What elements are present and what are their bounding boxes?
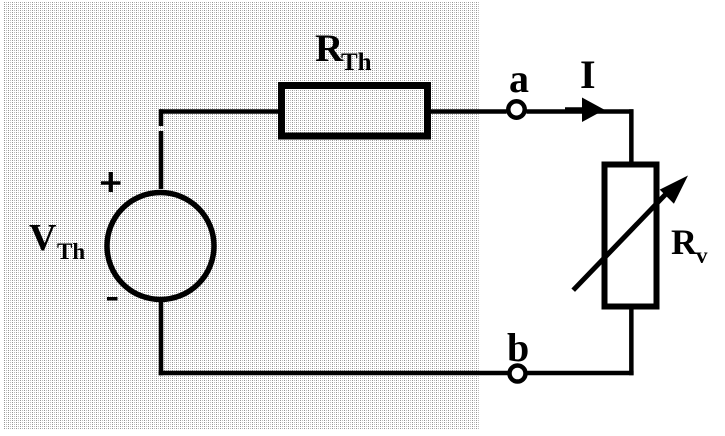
current arrow I tail	[565, 107, 583, 113]
svg-text:Th: Th	[57, 239, 85, 264]
svg-text:b: b	[507, 325, 529, 370]
wire top horizontal: R_Th to node a	[426, 109, 507, 114]
plus sign	[101, 172, 121, 192]
minus sign	[107, 297, 118, 301]
variable-resistor diagonal arrow line	[573, 191, 668, 290]
wire left vertical upper: gap to source top	[159, 131, 164, 189]
node b (open terminal)	[510, 366, 526, 382]
variable-resistor arrowhead	[660, 176, 688, 204]
voltage source V_Th (circle)	[107, 193, 214, 300]
wire bottom horizontal: corner to node b	[528, 371, 634, 376]
svg-text:a: a	[509, 56, 529, 101]
resistor R_Th (box, transparent interior)	[282, 86, 428, 137]
wire left vertical lower: source bottom to bottom wire	[159, 301, 164, 375]
svg-text:R: R	[315, 27, 344, 70]
stippled background region	[3, 2, 479, 430]
svg-text:I: I	[580, 52, 596, 97]
current arrow I	[582, 98, 605, 123]
wire right vertical: R_v bottom to bottom corner	[629, 307, 634, 375]
wire bottom horizontal: node b to bottom-left corner	[159, 371, 508, 376]
node a (open terminal)	[508, 101, 524, 117]
svg-text:v: v	[696, 243, 708, 268]
wire top horizontal: source corner to R_Th	[160, 109, 284, 114]
svg-text:V: V	[29, 217, 57, 259]
variable resistor R_v (box, white interior)	[605, 165, 657, 307]
svg-text:R: R	[671, 222, 698, 262]
svg-text:Th: Th	[341, 49, 372, 76]
wire top horizontal: node a to top-right corner	[527, 109, 634, 114]
wire left vertical upper stub below top corner	[159, 109, 164, 126]
wire right vertical: corner to R_v top	[629, 109, 634, 164]
